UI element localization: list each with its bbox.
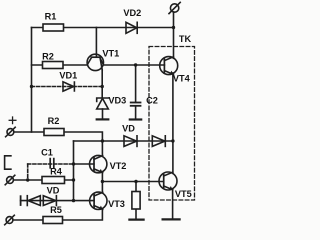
relay box TK dashed outline — [149, 47, 195, 201]
transistor VT2 — [90, 155, 107, 172]
wire resistor R6 top lead — [135, 182, 137, 192]
svg-text:R2: R2 — [42, 52, 54, 62]
resistor R4 — [42, 177, 65, 184]
capacitor C2 — [130, 103, 141, 120]
zener diode VD3 — [97, 98, 109, 119]
wire C2 tap down — [135, 65, 137, 102]
diode VD1 dashed optional — [63, 82, 74, 91]
wire R4 row — [13, 179, 73, 181]
handset hook symbol — [5, 156, 11, 169]
svg-text:VD1: VD1 — [59, 71, 77, 81]
resistor R5 — [43, 217, 63, 224]
resistor R2 — [43, 62, 64, 69]
transistor VT5 — [159, 172, 177, 190]
svg-text:R2: R2 — [48, 116, 60, 126]
svg-text:VT3: VT3 — [108, 199, 125, 209]
wire VT4 collector from rail — [173, 28, 175, 59]
wire VT4 emitter to VT5 collector — [172, 73, 174, 173]
resistor R1 — [43, 24, 64, 31]
wire VT1 left lead to R2 — [32, 64, 88, 66]
svg-text:TK: TK — [179, 34, 192, 44]
svg-text:VD: VD — [122, 124, 135, 134]
wire VT1 base drop from rail — [95, 28, 97, 58]
node C2 tap — [134, 63, 137, 66]
resistor R2b — [44, 129, 64, 136]
node diode row VT4 emitter — [171, 139, 174, 142]
wire left supply bus — [31, 28, 33, 133]
wire R5 row — [13, 209, 102, 220]
svg-text:VT5: VT5 — [175, 189, 192, 199]
svg-text:R4: R4 — [50, 167, 63, 177]
terminal plus input — [6, 127, 16, 137]
transistor VT4 — [160, 57, 178, 75]
ground under VT5 — [163, 218, 180, 220]
wire VT2 base — [74, 163, 94, 165]
node VT3 base VD pair — [72, 199, 75, 202]
ground under R6 — [129, 219, 143, 221]
wire VT2 emitter to VT5 base — [102, 181, 163, 183]
node VT2 base C1 — [72, 162, 75, 165]
svg-text:VT2: VT2 — [110, 161, 127, 171]
svg-text:C2: C2 — [146, 96, 158, 106]
wire top rail — [32, 27, 174, 29]
wire mid bus vertical — [73, 141, 75, 201]
wire VT3 base row — [21, 200, 94, 202]
diode VD2 — [126, 22, 137, 33]
terminal line input — [5, 175, 15, 185]
plus sign — [9, 117, 16, 124]
terminal top output — [169, 2, 180, 13]
node rail to top terminal — [172, 26, 175, 29]
wire VT5 emitter to ground — [172, 189, 174, 220]
resistor R6 vertical — [132, 192, 140, 210]
wire plus terminal row — [14, 131, 44, 133]
node VT1 emitter VD1 — [101, 85, 104, 88]
wire resistor R6 bottom lead to ground — [135, 209, 137, 219]
svg-text:VD3: VD3 — [108, 96, 126, 106]
svg-text:VD2: VD2 — [123, 8, 141, 18]
diode VD right of pair — [152, 136, 165, 147]
terminal bottom input — [5, 215, 15, 225]
transistor VT1 — [87, 54, 103, 70]
node diode row VT2 collector — [101, 139, 104, 142]
svg-text:R5: R5 — [50, 205, 62, 215]
wire VT2 collector — [101, 141, 103, 156]
node R4 mid bus — [72, 178, 75, 181]
wire VT1 emitter down to VD3 — [101, 70, 103, 98]
node C1 vertical R4 row — [26, 178, 29, 181]
dashed link C1 horizontal — [28, 163, 74, 165]
node VT2 emitter out — [101, 180, 104, 183]
wire top terminal lead — [173, 12, 175, 28]
svg-text:VT4: VT4 — [173, 74, 191, 84]
node bus VD1 — [30, 85, 33, 88]
wire VT2 emitter to VT3 collector — [101, 172, 103, 192]
svg-text:VT1: VT1 — [102, 49, 119, 59]
dashed link VD1 — [32, 86, 103, 88]
wire diode row B — [74, 140, 173, 142]
diode pair VD bottom right element — [43, 196, 56, 206]
transistor VT3 — [90, 192, 107, 209]
svg-text:VD: VD — [47, 186, 60, 196]
wire R2b to corner — [64, 132, 102, 141]
capacitor C1 — [50, 159, 54, 168]
node R6 tap — [134, 180, 137, 183]
wire VT1 right lead to VT4 base — [103, 64, 164, 66]
diode pair VD bottom left element — [21, 196, 41, 206]
dashed link C1 vertical — [27, 164, 29, 180]
diode VD left of pair — [124, 136, 137, 147]
svg-text:R1: R1 — [45, 12, 57, 22]
svg-text:C1: C1 — [41, 148, 53, 158]
